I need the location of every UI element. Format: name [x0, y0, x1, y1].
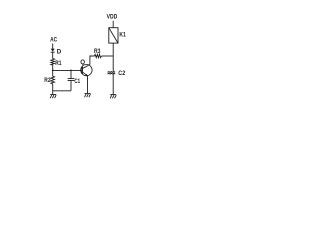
- wire: [112, 74, 114, 95]
- svg-text:AC: AC: [50, 36, 57, 43]
- svg-text:C2: C2: [118, 70, 125, 77]
- wire: [87, 76, 89, 94]
- wire: [52, 65, 54, 76]
- ground: [50, 95, 56, 99]
- wire: [112, 43, 114, 71]
- transistor Q: [80, 59, 92, 76]
- wire: [52, 84, 54, 95]
- svg-text:R1: R1: [55, 60, 62, 67]
- wire: [52, 44, 54, 49]
- wire: [53, 69, 82, 71]
- svg-text:R3: R3: [94, 48, 101, 55]
- junction: [70, 70, 72, 72]
- svg-text:Q: Q: [80, 59, 85, 66]
- capacitor C2: [108, 70, 126, 77]
- resistor R3: [94, 48, 102, 58]
- resistor R1: [51, 59, 62, 68]
- resistor R2: [44, 76, 54, 84]
- ground: [110, 95, 116, 99]
- wire: [112, 21, 114, 28]
- svg-text:R2: R2: [44, 77, 51, 84]
- svg-text:C1: C1: [74, 78, 80, 85]
- svg-text:D: D: [57, 48, 62, 55]
- wire: [102, 55, 114, 57]
- wire: [53, 90, 71, 92]
- relay coil K1: [109, 28, 126, 43]
- capacitor C1: [68, 70, 81, 90]
- ground: [85, 94, 91, 98]
- wire: [90, 56, 95, 65]
- svg-text:K1: K1: [119, 32, 126, 39]
- svg-text:VDD: VDD: [107, 14, 118, 21]
- diode D: [51, 48, 62, 55]
- junction: [52, 70, 54, 72]
- wire: [52, 52, 54, 58]
